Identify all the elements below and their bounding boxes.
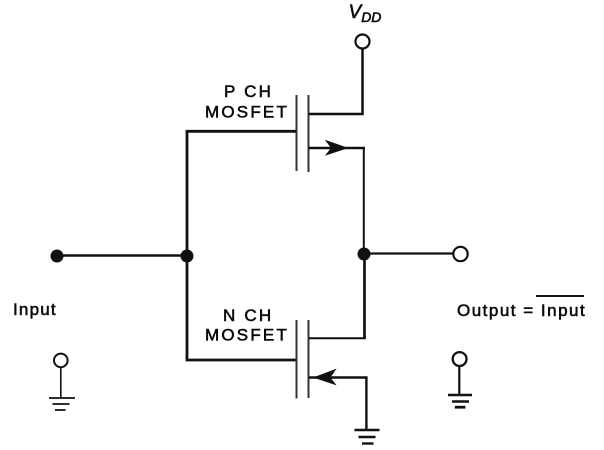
wire input	[57, 254, 187, 257]
wire NMOS source to ground	[365, 378, 367, 431]
node output junction	[358, 248, 371, 261]
svg-text:P CH: P CH	[224, 82, 273, 101]
reference terminal right	[453, 352, 467, 395]
input terminal dot	[51, 250, 64, 263]
wire NMOS drain to output node	[363, 258, 366, 338]
svg-text:MOSFET: MOSFET	[205, 326, 289, 345]
VDD terminal	[356, 35, 370, 49]
transistor Q1 P-channel MOSFET	[297, 95, 366, 172]
Input label	[13, 300, 57, 319]
Output label	[457, 296, 586, 320]
wire to NMOS gate	[186, 359, 296, 362]
transistor Q2 N-channel MOSFET	[297, 320, 368, 399]
output terminal	[453, 247, 467, 261]
wire PMOS source to output node	[363, 148, 365, 250]
svg-text:Output = Input: Output = Input	[457, 301, 586, 320]
wire output	[364, 252, 454, 254]
N CH MOSFET label	[205, 306, 289, 345]
wire VDD to PMOS drain	[309, 49, 363, 115]
svg-text:Input: Input	[13, 300, 57, 319]
wire to PMOS gate	[186, 130, 296, 133]
P CH MOSFET label	[205, 82, 289, 122]
reference terminal left	[54, 354, 68, 398]
ground (NMOS source)	[355, 430, 380, 444]
svg-text:MOSFET: MOSFET	[205, 103, 289, 122]
net VDD label	[349, 2, 382, 25]
wire gate bus vertical	[186, 131, 189, 360]
node input junction	[181, 250, 194, 263]
ground left	[49, 398, 75, 410]
ground right	[448, 395, 472, 407]
svg-text:N CH: N CH	[223, 306, 273, 325]
